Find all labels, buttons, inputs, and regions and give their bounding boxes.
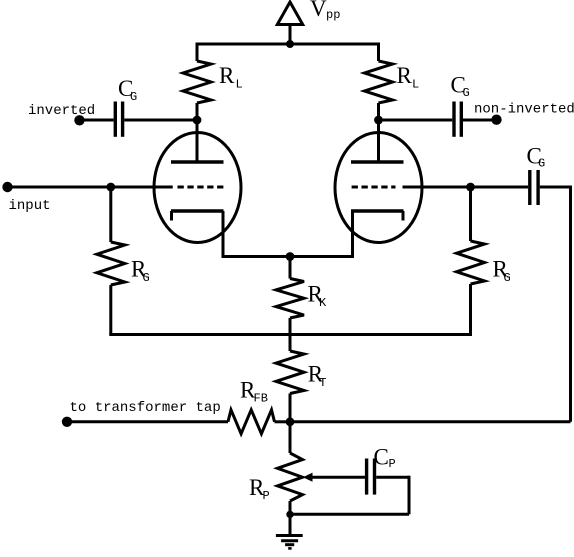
svg-text:G: G: [538, 157, 545, 171]
svg-text:inverted: inverted: [28, 103, 95, 119]
svg-text:non-inverted: non-inverted: [474, 102, 574, 118]
svg-text:R: R: [219, 63, 235, 88]
svg-text:K: K: [319, 296, 327, 310]
svg-text:to transformer tap: to transformer tap: [70, 400, 221, 416]
svg-text:FB: FB: [254, 392, 268, 406]
svg-text:L: L: [412, 78, 419, 92]
svg-text:P: P: [389, 457, 396, 471]
svg-text:T: T: [319, 376, 326, 390]
svg-text:L: L: [236, 78, 243, 92]
svg-text:C: C: [374, 445, 389, 470]
svg-text:G: G: [130, 90, 137, 104]
svg-text:G: G: [143, 271, 150, 285]
svg-text:pp: pp: [326, 8, 340, 22]
svg-text:R: R: [397, 63, 413, 88]
svg-text:G: G: [463, 86, 470, 100]
svg-text:V: V: [310, 0, 327, 21]
svg-text:G: G: [504, 271, 511, 285]
svg-text:P: P: [263, 489, 270, 503]
svg-text:input: input: [9, 198, 51, 214]
